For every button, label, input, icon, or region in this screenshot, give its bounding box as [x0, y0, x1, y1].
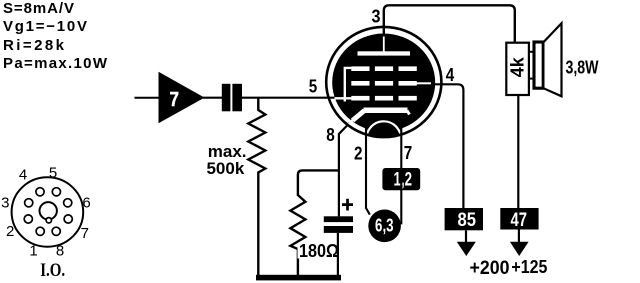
svg-text:I.O.: I.O. — [40, 260, 65, 281]
heater voltage circle 6,3 — [368, 210, 401, 243]
socket outer circle — [12, 177, 84, 246]
speaker stub top — [529, 51, 534, 53]
tube cathode dome — [367, 121, 401, 138]
capacitor C2 electrolytic bottom plate — [324, 226, 353, 233]
label 180ohm background — [298, 244, 340, 259]
tube envelope ring — [326, 27, 441, 137]
wire 4k to 47 box — [517, 95, 519, 208]
socket pin 4 hole — [36, 188, 44, 196]
wire triangle to capacitor — [203, 97, 223, 99]
socket pin 3 hole — [25, 199, 33, 207]
svg-text:2: 2 — [354, 143, 363, 164]
tube suppressor lead to pin 8 white — [349, 120, 353, 125]
tube grid dashes row 3 — [351, 96, 369, 101]
wire pin 8 to capacitor junction — [339, 123, 350, 217]
svg-text:7: 7 — [404, 142, 413, 163]
capacitor C1 coupling, left plate — [222, 84, 231, 112]
ground bus bar — [256, 275, 341, 281]
heater current box 1,2 — [382, 168, 420, 190]
svg-text:4: 4 — [19, 166, 27, 183]
tube internal anode lead white — [383, 37, 385, 54]
tube suppressor right hook — [407, 111, 410, 115]
anode voltage box 85 — [445, 208, 483, 230]
svg-text:6: 6 — [82, 195, 90, 212]
tube grid bracket left — [345, 68, 352, 102]
tube grid dashes row 2 — [351, 81, 369, 86]
svg-text:S=8mA/V: S=8mA/V — [3, 0, 74, 17]
tube suppressor bar — [364, 108, 408, 114]
socket pin 2 hole — [24, 215, 32, 223]
svg-text:5: 5 — [309, 76, 318, 97]
tube internal anode bar — [358, 51, 411, 55]
wire 47 box to arrow — [518, 230, 520, 244]
wire capacitor to tube grid pin 5 — [242, 97, 337, 99]
wire heater pin 7 — [400, 127, 402, 225]
socket key — [46, 218, 51, 223]
svg-text:4k: 4k — [507, 56, 527, 77]
socket pin 7 hole — [64, 215, 72, 223]
tube cathode dome interior fill — [367, 116, 401, 136]
capacitor C2 electrolytic top plate — [324, 216, 353, 222]
svg-text:2: 2 — [6, 223, 14, 240]
tube screen pin4 lead white — [417, 82, 432, 84]
svg-text:7: 7 — [81, 225, 89, 242]
svg-text:+125: +125 — [511, 256, 547, 277]
wire heater pin 2 — [366, 127, 370, 215]
svg-text:8: 8 — [56, 242, 64, 259]
svg-text:85: 85 — [458, 210, 477, 231]
svg-text:6,3: 6,3 — [375, 215, 394, 235]
svg-text:7: 7 — [170, 89, 180, 111]
svg-text:1,2: 1,2 — [394, 170, 413, 191]
speaker cone — [543, 23, 561, 96]
svg-text:+200: +200 — [470, 258, 510, 279]
svg-text:8: 8 — [326, 124, 335, 145]
input transducer triangle (pin 7 driver) — [159, 72, 205, 124]
socket pin 5 hole — [52, 188, 60, 196]
speaker driver rect — [534, 42, 543, 88]
svg-text:3: 3 — [1, 195, 9, 212]
screen voltage box 47 — [500, 208, 538, 230]
speaker stub bottom — [529, 78, 534, 80]
wire input stub — [135, 97, 160, 99]
wire 85 box to arrow — [465, 230, 467, 243]
wire anode pin 3 to top rail and down to 4k — [384, 5, 515, 42]
wire capacitor C2 to bus — [337, 233, 339, 276]
wire screen pin 4 exit — [431, 84, 463, 209]
svg-text:4: 4 — [446, 64, 455, 85]
resistor cathode 180 ohm — [290, 170, 338, 276]
socket pin 1 hole — [36, 227, 44, 235]
socket center spigot — [40, 202, 57, 219]
svg-text:500k: 500k — [206, 159, 244, 178]
svg-text:3: 3 — [372, 6, 381, 27]
svg-text:5: 5 — [49, 165, 57, 182]
tube grid pin5 lead white — [335, 97, 353, 99]
svg-text:3,8W: 3,8W — [566, 58, 599, 78]
arrow +200 — [457, 242, 476, 256]
svg-text:180Ω: 180Ω — [299, 241, 339, 261]
svg-text:47: 47 — [510, 210, 527, 231]
tube grid dashes row 1 — [351, 66, 369, 71]
tube suppressor left bend — [353, 111, 365, 121]
resistor 4k box — [506, 43, 529, 95]
socket pin 6 hole — [64, 199, 72, 207]
capacitor C2 plus sign — [342, 199, 353, 211]
svg-text:Ri=28k: Ri=28k — [3, 37, 65, 54]
socket pin 8 hole — [52, 227, 60, 235]
tube V1 envelope blob — [332, 34, 435, 132]
arrow +125 — [510, 242, 529, 256]
svg-text:Pa=max.10W: Pa=max.10W — [3, 55, 108, 72]
svg-text:1: 1 — [29, 242, 37, 259]
capacitor C1 coupling, right plate — [232, 84, 242, 112]
resistor grid-leak max.500k — [248, 98, 265, 276]
